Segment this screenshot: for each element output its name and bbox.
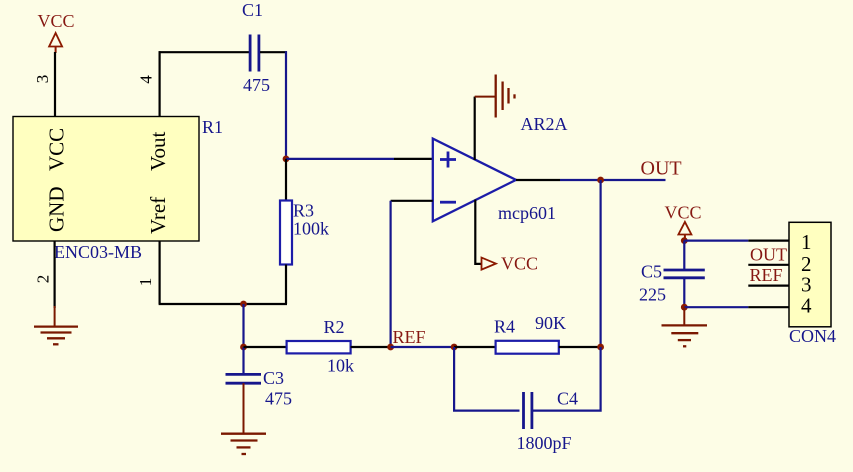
svg-text:90K: 90K (535, 313, 566, 333)
svg-text:VCC: VCC (665, 203, 702, 223)
capacitor C3 (226, 374, 262, 383)
value 1800pF (517, 433, 572, 453)
pin number 3 (CON4) (801, 273, 812, 297)
wire node G to CON4 pin4 (684, 306, 748, 308)
svg-text:OUT: OUT (641, 158, 682, 180)
svg-text:CON4: CON4 (789, 326, 836, 346)
svg-text:C5: C5 (641, 262, 662, 282)
svg-text:10k: 10k (327, 356, 354, 376)
svg-text:225: 225 (639, 285, 666, 305)
svg-text:REF: REF (750, 265, 783, 285)
pin name VCC (45, 128, 69, 171)
pin number 2 (CON4) (801, 252, 812, 276)
svg-text:VCC: VCC (45, 128, 69, 171)
svg-text:2: 2 (34, 275, 53, 284)
pin name Vref (146, 197, 170, 234)
power port VCC right (665, 203, 702, 241)
wire REF to node D (391, 346, 455, 348)
value 475 (C1) (243, 75, 270, 95)
junction node F (681, 237, 688, 244)
svg-text:R3: R3 (293, 201, 314, 221)
connector CON4 body (789, 222, 831, 326)
resistor R4 body (496, 341, 559, 354)
junction node B (240, 301, 247, 308)
resistor R3 body (280, 201, 292, 265)
wire U1 pin1 to node B (159, 241, 287, 304)
pin number 1 (136, 278, 155, 287)
pin number 2 (34, 275, 53, 284)
value 225 (639, 285, 666, 305)
designator C5 (641, 262, 662, 282)
wire node A to op-amp + input (286, 158, 394, 160)
value ENC03-MB (54, 242, 142, 262)
svg-text:1: 1 (801, 230, 812, 254)
power port VCC (op-amp bottom) (482, 254, 539, 274)
wire pin4 to C1 (159, 51, 249, 53)
op-amp power pin top (474, 97, 476, 160)
svg-text:C3: C3 (263, 368, 284, 388)
junction node REF (387, 344, 394, 351)
wire output to OUT (560, 179, 666, 181)
svg-text:475: 475 (265, 389, 292, 409)
value 475 (C3) (265, 389, 292, 409)
ground symbol below C3 (221, 383, 266, 454)
designator AR2A (521, 114, 568, 134)
designator R4 (494, 317, 515, 337)
junction node G (681, 304, 688, 311)
junction node D (451, 344, 458, 351)
resistor R4 pin left (454, 346, 496, 348)
svg-text:1800pF: 1800pF (517, 433, 572, 453)
value 100k (293, 219, 329, 239)
svg-text:AR2A: AR2A (521, 114, 568, 134)
svg-text:Vref: Vref (146, 197, 170, 234)
junction node C (240, 344, 247, 351)
op-amp - input pin (391, 200, 433, 202)
svg-text:VCC: VCC (501, 254, 538, 274)
value 10k (327, 356, 354, 376)
svg-text:mcp601: mcp601 (498, 203, 556, 223)
designator C3 (263, 368, 284, 388)
capacitor C5 (664, 270, 705, 278)
op-amp AR2A triangle (433, 139, 516, 222)
designator C1 (242, 0, 263, 20)
svg-text:4: 4 (137, 75, 156, 84)
pin 2 wire (53, 241, 55, 308)
svg-text:4: 4 (801, 294, 812, 318)
svg-text:C1: C1 (242, 0, 263, 20)
pin number 4 (137, 75, 156, 84)
CON4 pin 2 stub (748, 264, 789, 266)
junction node A (283, 156, 290, 163)
net label OUT (pin2) (750, 245, 787, 265)
wire node B down (242, 304, 244, 347)
designator C4 (557, 389, 578, 409)
wire OUT node down to R4 (599, 180, 601, 347)
designator R3 (293, 201, 314, 221)
net label REF (pin3) (750, 265, 783, 285)
net label OUT (641, 158, 682, 180)
net label REF (393, 327, 426, 347)
junction node E (597, 344, 604, 351)
svg-text:C4: C4 (557, 389, 578, 409)
resistor R2 body (287, 341, 351, 353)
capacitor C3 stem (242, 347, 244, 374)
capacitor C4 (524, 392, 532, 429)
resistor R4 pin right (559, 346, 601, 348)
capacitor C1 (250, 35, 259, 72)
svg-text:100k: 100k (293, 219, 329, 239)
svg-text:ENC03-MB: ENC03-MB (54, 242, 142, 262)
svg-text:3: 3 (33, 75, 52, 84)
ground symbol rotated (op-amp top) (475, 75, 515, 118)
CON4 pin 1 stub (748, 240, 789, 242)
value 90K (535, 313, 566, 333)
svg-text:475: 475 (243, 75, 270, 95)
svg-text:GND: GND (45, 187, 69, 233)
power port VCC top-left (38, 11, 75, 53)
pin name Vout (146, 132, 170, 171)
op-amp output pin (516, 179, 560, 181)
capacitor C5 stem top (683, 241, 685, 270)
designator R1 (202, 117, 223, 137)
CON4 pin 3 stub (748, 285, 789, 287)
wire C1 to node A (260, 51, 287, 53)
svg-text:Vout: Vout (146, 132, 170, 171)
wire VCC to U1 pin 3 (54, 52, 56, 117)
svg-text:R4: R4 (494, 317, 515, 337)
svg-text:OUT: OUT (750, 245, 787, 265)
pin 4 wire (159, 51, 161, 116)
svg-text:R2: R2 (324, 317, 345, 337)
sensor module R1 ENC03-MB body (13, 117, 199, 242)
op-amp power pin bottom (475, 200, 481, 264)
wire node D down to C4 (454, 347, 519, 411)
designator CON4 (789, 326, 836, 346)
resistor R3 pin top (285, 159, 287, 201)
value mcp601 (498, 203, 556, 223)
pin number 4 (CON4) (801, 294, 812, 318)
svg-text:REF: REF (393, 327, 426, 347)
op-amp + input pin (394, 158, 433, 160)
designator R2 (324, 317, 345, 337)
junction node OUT (597, 177, 604, 184)
pin number 1 (CON4) (801, 230, 812, 254)
CON4 pin 4 stub (748, 306, 789, 308)
svg-text:R1: R1 (202, 117, 223, 137)
pin number 3 (33, 75, 52, 84)
wire node C to R2 (244, 346, 287, 348)
ground symbol right (662, 307, 708, 346)
pin name GND (45, 187, 69, 233)
svg-text:1: 1 (136, 278, 155, 287)
resistor R2 pin right (351, 346, 391, 348)
wire node F to CON4 pin1 (684, 240, 748, 242)
ground symbol left (34, 306, 78, 344)
wire - input to node REF (390, 201, 392, 347)
wire C1 corner down to node A (285, 51, 287, 159)
svg-text:VCC: VCC (38, 11, 75, 31)
capacitor C5 stem bottom (683, 278, 685, 307)
wire C4 to node E (533, 347, 601, 411)
resistor R3 pin bottom (285, 265, 287, 305)
